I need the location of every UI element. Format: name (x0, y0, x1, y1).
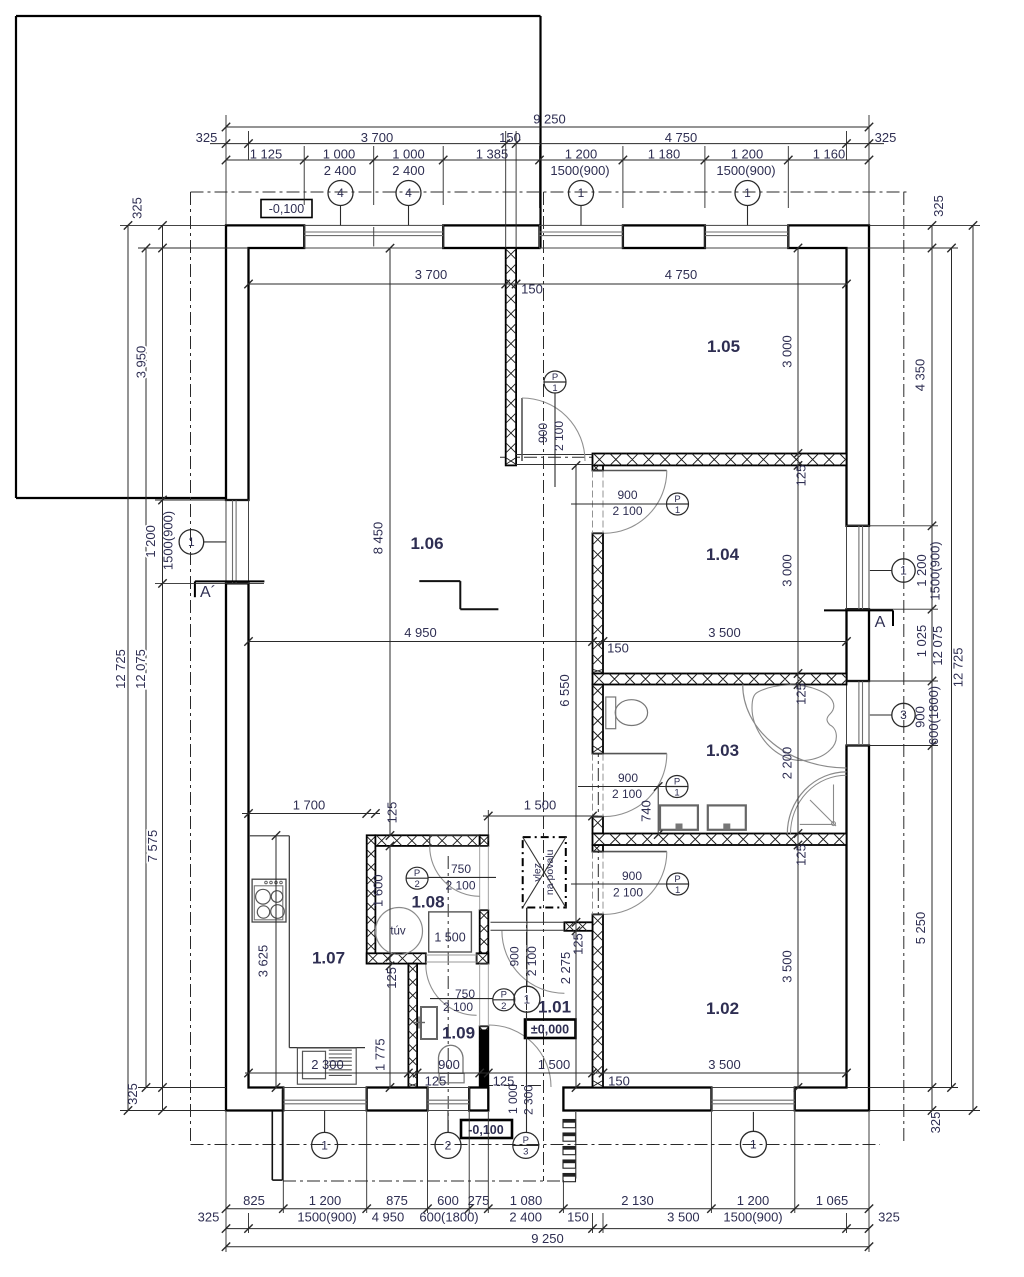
water tank 1500 (429, 912, 472, 952)
svg-text:150: 150 (567, 1210, 589, 1225)
interior wall C (1.05|1.04) (593, 454, 847, 466)
door openings in wall B (jamb lines) (593, 470, 604, 472)
svg-text:P: P (552, 372, 558, 383)
washbasin 1 (660, 805, 698, 829)
svg-text:2 130: 2 130 (621, 1193, 654, 1208)
svg-text:3 700: 3 700 (361, 130, 394, 145)
interior dim corridor x=576 (575, 465, 577, 1087)
svg-text:na povalu: na povalu (544, 849, 556, 895)
svg-text:900: 900 (617, 488, 637, 502)
svg-text:4: 4 (337, 186, 344, 200)
interior wall 1.08 right top corner (480, 835, 489, 846)
svg-text:12 725: 12 725 (951, 648, 966, 688)
svg-text:1500(900): 1500(900) (550, 163, 609, 178)
interior wall 1.08 left (367, 835, 376, 963)
svg-text:325: 325 (130, 197, 145, 219)
svg-text:125: 125 (425, 1074, 447, 1089)
porch steps (563, 1120, 576, 1128)
interior wall A (1.06|1.05) (506, 248, 516, 465)
svg-text:1 385: 1 385 (476, 146, 509, 161)
svg-text:-0,100: -0,100 (269, 202, 304, 216)
svg-text:9 250: 9 250 (533, 111, 566, 126)
svg-text:150: 150 (521, 282, 543, 297)
door 1.05 leaf+arc (521, 398, 523, 461)
svg-text:900: 900 (438, 1057, 460, 1072)
svg-text:125: 125 (794, 683, 809, 705)
window bottom 1200 (room 1.02) (711, 1088, 794, 1111)
washbasin 1.09 (421, 1007, 437, 1039)
interior wall E (1.03|1.02) (593, 834, 847, 846)
svg-text:3 700: 3 700 (415, 267, 448, 282)
svg-text:3: 3 (523, 1146, 528, 1157)
svg-text:P: P (674, 776, 680, 787)
svg-text:5 250: 5 250 (913, 912, 928, 945)
axis circles bottom (312, 1132, 338, 1158)
interior wall 1.08 bottom right (477, 953, 489, 963)
svg-text:3 500: 3 500 (780, 950, 795, 983)
svg-text:1 000: 1 000 (323, 146, 356, 161)
window W4 double-sash top-left (304, 225, 443, 248)
door axis dash-dot in wall B (597, 744, 599, 1088)
svg-text:275: 275 (468, 1193, 490, 1208)
svg-text:2 100: 2 100 (613, 886, 643, 900)
svg-text:1: 1 (675, 505, 680, 516)
svg-text:1500(900): 1500(900) (161, 511, 176, 570)
svg-text:3 500: 3 500 (667, 1210, 700, 1225)
svg-text:900: 900 (508, 946, 522, 966)
svg-text:1 500: 1 500 (524, 798, 557, 813)
interior wall B seg1 (593, 533, 604, 673)
svg-text:1 080: 1 080 (510, 1193, 543, 1208)
door 1.02 leaf+arc (604, 851, 667, 853)
svg-text:900: 900 (622, 869, 642, 883)
section axis vertical dash-dot (543, 192, 545, 1181)
svg-text:2: 2 (445, 1139, 452, 1153)
svg-text:A´: A´ (200, 584, 216, 601)
downpipe / corner detail bottom-left (271, 1111, 273, 1180)
interior dim 3625 x=276 (275, 836, 277, 1088)
elevation -0,100 top (261, 200, 312, 218)
adjacent structure outline (top-left big rectangle) (16, 15, 541, 17)
svg-text:4 750: 4 750 (665, 130, 698, 145)
cooktop (252, 879, 286, 922)
svg-text:3 000: 3 000 (780, 554, 795, 587)
svg-text:125: 125 (384, 967, 399, 989)
svg-text:12 725: 12 725 (113, 649, 128, 689)
svg-text:1500(900): 1500(900) (723, 1210, 782, 1225)
svg-text:750: 750 (455, 987, 475, 1001)
interior wall 1.08 right lower (480, 910, 489, 963)
svg-text:2 100: 2 100 (612, 504, 642, 518)
shower tray (787, 772, 846, 834)
svg-text:2 100: 2 100 (612, 787, 642, 801)
svg-text:2 300: 2 300 (522, 1085, 536, 1115)
interior wall B seg2 (593, 685, 604, 754)
svg-text:1500(900): 1500(900) (716, 163, 775, 178)
door mark P2 (1.09) + hatch mark (493, 989, 515, 1011)
opening corridor to 1.01 (491, 921, 565, 923)
svg-text:P: P (523, 1135, 529, 1146)
kitchen counter (250, 835, 289, 837)
svg-text:4 350: 4 350 (913, 359, 928, 392)
axis circles right windows (892, 559, 915, 582)
interior dims y=1073 (245, 1072, 847, 1074)
interior wall 1.09 left (408, 964, 417, 1088)
svg-text:325: 325 (196, 130, 218, 145)
window bottom 1200 (kitchen) (283, 1088, 366, 1111)
svg-text:1.04: 1.04 (706, 545, 740, 564)
svg-text:125: 125 (794, 465, 809, 487)
svg-text:1 600: 1 600 (371, 874, 386, 907)
svg-text:1: 1 (674, 788, 679, 799)
svg-text:3: 3 (900, 708, 907, 722)
svg-text:150: 150 (607, 641, 629, 656)
attic access hatch (523, 837, 566, 907)
svg-text:P: P (501, 990, 507, 1001)
interior wall D (1.04|1.03) (593, 674, 847, 685)
svg-text:1.05: 1.05 (707, 337, 740, 356)
svg-text:1: 1 (552, 383, 557, 394)
interior wall B seg3 (593, 817, 604, 834)
svg-text:600: 600 (437, 1193, 459, 1208)
svg-text:1 000: 1 000 (392, 146, 425, 161)
door 1.09: opening in divider wall + arc (425, 953, 427, 963)
interior dim right rooms x=798 (797, 248, 799, 1088)
svg-text:1 160: 1 160 (813, 146, 846, 161)
opening 1.08 top wall (430, 834, 480, 836)
svg-text:1: 1 (578, 186, 585, 200)
svg-text:1: 1 (524, 992, 531, 1006)
svg-text:1 700: 1 700 (293, 798, 326, 813)
svg-text:-0,100: -0,100 (468, 1123, 503, 1137)
window axis circles top (328, 181, 353, 206)
bottom dimension rows (226, 1208, 869, 1210)
opening in 1.08/1.09 right wall (480, 845, 489, 847)
svg-text:125: 125 (794, 844, 809, 866)
svg-text:2 400: 2 400 (392, 163, 425, 178)
svg-text:2 100: 2 100 (445, 879, 475, 893)
interior wall B seg4 (593, 845, 604, 852)
svg-text:875: 875 (386, 1193, 408, 1208)
svg-text:4 950: 4 950 (404, 625, 437, 640)
svg-text:3 500: 3 500 (708, 1057, 741, 1072)
washbasin 2 (708, 805, 746, 829)
section mark A-prime (195, 580, 265, 582)
svg-text:2 200: 2 200 (780, 747, 795, 780)
svg-text:3 500: 3 500 (708, 625, 741, 640)
svg-text:125: 125 (493, 1074, 515, 1089)
axis circle left window (179, 530, 204, 555)
door 1.08 arc (430, 846, 480, 896)
svg-text:2 275: 2 275 (558, 952, 573, 985)
roof overhang dash-dot rectangle (191, 191, 909, 193)
svg-text:4: 4 (405, 186, 412, 200)
svg-text:2 100: 2 100 (443, 1000, 473, 1014)
svg-text:600(1800): 600(1800) (419, 1210, 478, 1225)
door mark P1 (1.05) (544, 371, 566, 393)
interior wall 1.08 top (375, 835, 479, 846)
door 1.03 leaf+arc (604, 753, 667, 755)
svg-text:1 065: 1 065 (816, 1193, 849, 1208)
svg-text:125: 125 (385, 802, 400, 824)
svg-text:1.02: 1.02 (706, 999, 739, 1018)
corner bathtub (743, 685, 847, 769)
interior wall 1.09 right lower (480, 1026, 489, 1087)
exterior wall: bottom, middle blocks (367, 1088, 428, 1111)
svg-text:1500(900): 1500(900) (297, 1210, 356, 1225)
interior wall stub corridor|1.01 (564, 922, 592, 931)
svg-text:1 200: 1 200 (143, 525, 158, 558)
svg-text:7 575: 7 575 (145, 830, 160, 863)
svg-text:2: 2 (501, 1001, 506, 1012)
entry door leaf (black) + arc (480, 1030, 489, 1088)
svg-text:325: 325 (931, 195, 946, 217)
svg-text:9 250: 9 250 (531, 1231, 564, 1246)
svg-text:6 550: 6 550 (557, 674, 572, 707)
svg-text:±0,000: ±0,000 (531, 1023, 569, 1037)
svg-text:1: 1 (675, 885, 680, 896)
top dimension rows (226, 126, 869, 128)
window left 1200 (226, 500, 249, 583)
svg-text:4 950: 4 950 (372, 1210, 405, 1225)
svg-text:2: 2 (414, 879, 419, 890)
interior dims x=390 kitchen chain (389, 846, 391, 1088)
svg-text:1 180: 1 180 (648, 146, 681, 161)
elevation +-0,000 (525, 1020, 576, 1039)
window top 1200 b (axis 1) (705, 225, 788, 248)
svg-text:P: P (414, 868, 420, 879)
svg-text:1 775: 1 775 (373, 1038, 388, 1071)
svg-text:900: 900 (618, 771, 638, 785)
toilet 1.03 (606, 697, 616, 729)
step symbol in 1.06 (419, 580, 460, 582)
svg-text:325: 325 (875, 130, 897, 145)
svg-text:12 075: 12 075 (133, 649, 148, 689)
svg-text:600(1800): 600(1800) (926, 686, 941, 745)
interior dim 8450 vertical x=390 (389, 248, 391, 835)
svg-text:325: 325 (878, 1210, 900, 1225)
svg-text:1 200: 1 200 (731, 146, 764, 161)
toilet 1.09 (439, 1073, 464, 1082)
door corridor-1.01 arc (502, 931, 565, 994)
svg-text:P: P (674, 494, 680, 505)
svg-text:1.01: 1.01 (538, 998, 571, 1017)
svg-text:1.09: 1.09 (442, 1024, 475, 1043)
svg-text:1: 1 (188, 535, 195, 549)
left dimension columns (127, 225, 129, 1110)
door mark P1 (1.03) (666, 776, 688, 798)
svg-text:3 000: 3 000 (780, 335, 795, 368)
interior dim 740 (bath) (657, 787, 659, 835)
svg-text:8 450: 8 450 (371, 522, 386, 555)
window bottom 600 (wc 1.09) (428, 1088, 470, 1111)
svg-text:1.07: 1.07 (312, 949, 345, 968)
svg-text:150: 150 (499, 130, 521, 145)
svg-text:1: 1 (750, 1138, 757, 1152)
interior wall B seg5 (593, 914, 604, 1087)
svg-text:1500(900): 1500(900) (927, 541, 942, 600)
svg-text:1: 1 (744, 186, 751, 200)
svg-text:1 500: 1 500 (434, 931, 465, 945)
svg-text:P: P (674, 874, 680, 885)
exterior wall: right, middle block (847, 609, 870, 681)
svg-text:1 200: 1 200 (565, 146, 598, 161)
door mark P1 (1.04) (667, 493, 689, 515)
interior dims y=284 (249, 283, 847, 285)
svg-text:4 750: 4 750 (665, 267, 698, 282)
porch dash-dot (283, 1180, 560, 1182)
svg-text:740: 740 (639, 800, 654, 822)
svg-text:750: 750 (451, 862, 471, 876)
svg-text:túv: túv (390, 926, 406, 938)
door mark P2 (1.08) (406, 867, 428, 889)
svg-text:1.03: 1.03 (706, 741, 739, 760)
interior dims y=641.5 (249, 641, 847, 643)
interior dim 1500 y=816 (483, 815, 598, 817)
opening corridor to 1.05 (516, 454, 592, 456)
svg-text:3 950: 3 950 (134, 346, 149, 379)
door mark P1 (1.02) (667, 873, 689, 895)
boiler tuv circle (376, 908, 423, 955)
svg-text:325: 325 (125, 1083, 140, 1105)
right dimension columns (931, 225, 933, 1110)
svg-text:2 400: 2 400 (509, 1210, 542, 1225)
svg-text:1 125: 1 125 (250, 146, 283, 161)
interior wall 1.08 bottom left (367, 953, 426, 963)
svg-text:2 300: 2 300 (311, 1057, 344, 1072)
svg-text:1 025: 1 025 (914, 625, 929, 658)
kitchen sink unit (297, 1048, 356, 1084)
window right 1200 (room 1.04) (847, 526, 870, 609)
svg-text:125: 125 (571, 933, 586, 955)
svg-text:1: 1 (321, 1139, 328, 1153)
section mark A (824, 609, 893, 611)
svg-text:vlez: vlez (531, 863, 543, 882)
svg-text:2 100: 2 100 (552, 421, 566, 451)
door 1.04 leaf+arc (604, 470, 667, 472)
svg-text:1 500: 1 500 (538, 1057, 571, 1072)
svg-text:825: 825 (243, 1193, 265, 1208)
interior wall B seg0 (593, 465, 604, 470)
svg-text:3 625: 3 625 (256, 945, 271, 978)
svg-text:1 200: 1 200 (737, 1193, 770, 1208)
svg-text:A: A (875, 614, 886, 631)
interior dim 1700 y=813.5 (242, 813, 380, 815)
window top 1200 (axis 1) (540, 225, 623, 248)
svg-text:1.08: 1.08 (411, 893, 444, 912)
corridor door centerline (500, 456, 600, 458)
svg-text:2 100: 2 100 (525, 946, 539, 976)
svg-text:900: 900 (536, 423, 550, 443)
svg-text:12 075: 12 075 (930, 626, 945, 666)
elevation -0,100 bottom (461, 1120, 512, 1138)
svg-text:325: 325 (928, 1112, 943, 1134)
svg-text:1.06: 1.06 (410, 534, 443, 553)
svg-text:1: 1 (900, 564, 907, 578)
svg-text:325: 325 (198, 1210, 220, 1225)
svg-text:1 200: 1 200 (309, 1193, 342, 1208)
window right 900 (bath) (847, 681, 870, 746)
exterior wall: top, segments with windows (226, 225, 304, 500)
svg-text:150: 150 (608, 1074, 630, 1089)
svg-text:2 400: 2 400 (324, 163, 357, 178)
